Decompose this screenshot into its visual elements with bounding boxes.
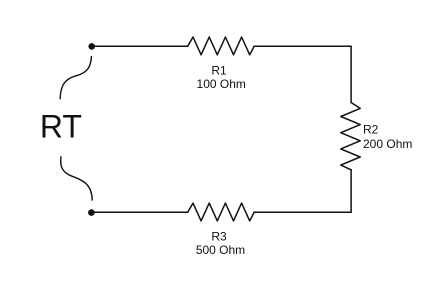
node RT lead squiggle (top) [60,57,91,99]
svg-text:100 Ohm: 100 Ohm [197,77,246,91]
resistor R2 [341,103,360,170]
wire (R2 down to bottom-right corner) [350,170,352,212]
node RT terminal dot (bottom) [88,209,95,216]
svg-text:R1: R1 [211,64,227,78]
wire (top dot to R1) [92,45,188,47]
wire (bottom-right corner to R3) [254,211,351,213]
svg-text:R2: R2 [363,122,379,136]
resistor R3 [188,203,255,221]
svg-text:R3: R3 [211,229,227,243]
svg-text:200 Ohm: 200 Ohm [363,137,412,151]
node RT terminal dot (top) [88,43,95,50]
wire (R1 to top-right corner) [254,45,351,47]
wire (right side, corner down to R2) [350,46,352,102]
resistor R1 [188,37,255,55]
wire (R3 to bottom dot) [91,211,187,213]
svg-text:RT: RT [40,109,82,145]
node RT lead squiggle (bottom) [61,157,93,200]
svg-text:500 Ohm: 500 Ohm [196,243,245,257]
